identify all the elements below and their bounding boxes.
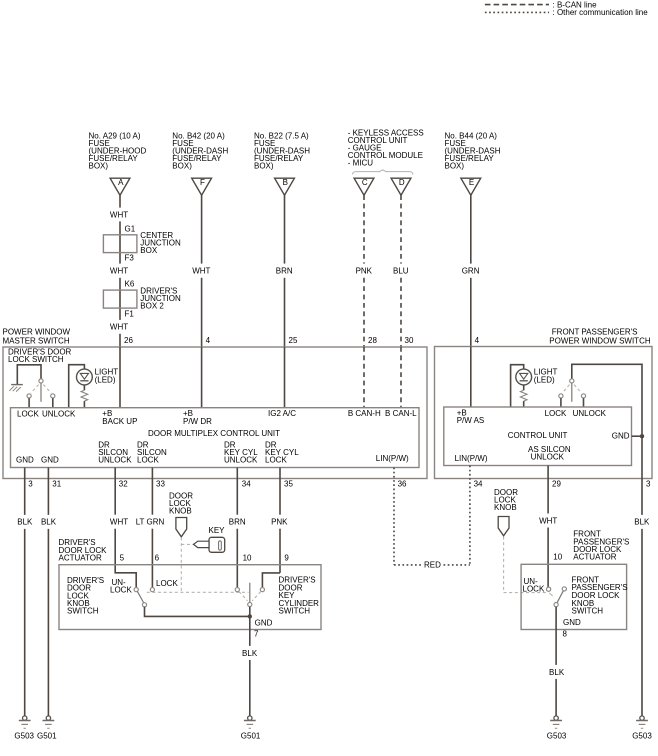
LED light (master) <box>77 369 93 390</box>
LED light (passenger) <box>516 369 532 390</box>
driver's knob switch arm <box>137 591 143 603</box>
svg-text:DOOR MULTIPLEX CONTROL UNIT: DOOR MULTIPLEX CONTROL UNIT <box>148 429 280 438</box>
wire pin4 to +B P/W DR <box>201 347 203 408</box>
wire pin34 DR KEY CYL UNLOCK (BRN) <box>236 468 238 515</box>
pin label +B P/W AS <box>457 409 485 426</box>
svg-text:8: 8 <box>563 630 568 639</box>
door lock knob label (passenger) <box>494 488 518 512</box>
svg-text:PNK: PNK <box>356 267 373 276</box>
svg-text:B CAN-H: B CAN-H <box>348 409 381 418</box>
pin label GND GND <box>16 455 59 464</box>
svg-text:GND: GND <box>612 431 630 440</box>
LIN(P/W) dotted wire pin34 passenger <box>469 466 471 565</box>
svg-text:9: 9 <box>284 553 289 562</box>
knob linkage dashed (passenger) <box>503 537 505 593</box>
key linkage dashed <box>181 543 193 545</box>
svg-text:BOX: BOX <box>140 246 158 255</box>
svg-text:34: 34 <box>474 479 483 488</box>
svg-text:LT GRN: LT GRN <box>136 518 165 527</box>
wire pin4 to +B P/W AS <box>470 347 472 408</box>
mechanical linkage dashed (knob to key cylinder) <box>147 591 249 593</box>
svg-text:BOX): BOX) <box>445 161 465 170</box>
knob linkage dashed (driver) <box>180 538 182 593</box>
svg-text:P/W DR: P/W DR <box>183 417 212 426</box>
svg-text:LIN(P/W): LIN(P/W) <box>455 454 488 463</box>
wire pin33 DR SILCON LOCK (LT GRN) <box>151 468 153 515</box>
wire pin29 AS SILCON UNLOCK (WHT) <box>547 466 549 514</box>
LIGHT (LED) label (passenger) <box>534 368 558 385</box>
svg-text:D: D <box>399 178 405 187</box>
svg-text:G501: G501 <box>241 732 261 741</box>
ground G503 (passenger pin3) <box>632 716 652 741</box>
svg-text:FRONT PASSENGER'S: FRONT PASSENGER'S <box>552 327 638 336</box>
resistor below LED (passenger) <box>520 390 527 401</box>
svg-text:WHT: WHT <box>192 267 210 276</box>
wire fuse B42 to pin 4 (WHT) <box>201 195 203 263</box>
svg-text:3: 3 <box>28 479 33 488</box>
svg-text:G501: G501 <box>37 732 57 741</box>
svg-text:KNOB: KNOB <box>494 503 517 512</box>
svg-text:RED: RED <box>424 561 441 570</box>
svg-text:C: C <box>362 178 368 187</box>
svg-text:30: 30 <box>405 336 414 345</box>
connector triangle C <box>354 178 374 195</box>
svg-text:BACK UP: BACK UP <box>102 417 137 426</box>
svg-text:4: 4 <box>475 336 480 345</box>
driver's key cylinder pivot <box>248 602 252 606</box>
svg-text:LOCK: LOCK <box>156 579 178 588</box>
svg-text:10: 10 <box>553 552 562 561</box>
driver's key cylinder unlock contact <box>235 588 239 592</box>
pin label +B P/W DR <box>183 409 212 426</box>
svg-text:E: E <box>469 178 474 187</box>
svg-text:WHT: WHT <box>110 267 128 276</box>
driver's junction box 2 <box>103 287 181 311</box>
driver's door lock knob switch label <box>67 576 104 615</box>
svg-text:WHT: WHT <box>539 516 557 525</box>
wire pin25 to IG2 A/C <box>284 347 286 408</box>
driver's key cylinder lock contact <box>260 588 264 592</box>
svg-text:LOCK: LOCK <box>137 455 159 464</box>
LED light U-bracket (master) <box>69 365 85 408</box>
wire passenger knob switch to G503 (BLK) <box>555 607 557 665</box>
pin label +B BACK UP <box>102 409 137 426</box>
passenger lock contact <box>559 394 563 407</box>
wire fuse B44 to pin 4 (GRN) <box>470 195 472 263</box>
LED light U-bracket (passenger) <box>511 365 524 407</box>
svg-text:LOCK: LOCK <box>523 584 545 593</box>
svg-text:25: 25 <box>289 336 298 345</box>
svg-text:KNOB: KNOB <box>169 506 192 515</box>
svg-text:BRN: BRN <box>229 518 246 527</box>
svg-text:UNLOCK: UNLOCK <box>531 453 565 462</box>
wire pin31 GND to G501 (BLK) <box>47 468 49 515</box>
wire pin28 to B CAN-H <box>363 347 365 408</box>
resistor below LED (master) <box>81 390 88 401</box>
svg-text:BLK: BLK <box>41 518 57 527</box>
driver's knob switch pivot <box>142 603 146 607</box>
svg-text:LOCK: LOCK <box>110 586 132 595</box>
svg-text:(LED): (LED) <box>534 375 555 384</box>
lock contact <box>27 394 31 408</box>
wire pin30 to B CAN-L <box>400 347 402 408</box>
pin label DR KEY CYL LOCK <box>265 440 299 464</box>
svg-text:: Other communication line: : Other communication line <box>553 8 649 17</box>
svg-text:LIN(P/W): LIN(P/W) <box>376 454 409 463</box>
svg-text:29: 29 <box>552 479 561 488</box>
connector triangle F <box>192 178 212 195</box>
svg-text:3: 3 <box>646 479 651 488</box>
svg-text:UNLOCK: UNLOCK <box>224 455 258 464</box>
svg-text:ACTUATOR: ACTUATOR <box>573 553 616 562</box>
svg-text:B CAN-L: B CAN-L <box>385 409 417 418</box>
wire fuse A29 to pin 26 (WHT) <box>119 195 121 207</box>
driver's door key cylinder switch label <box>279 576 320 616</box>
wire key cylinder pivot to G501 (BLK) <box>249 607 251 646</box>
svg-text:F: F <box>200 178 205 187</box>
svg-text:28: 28 <box>368 336 377 345</box>
svg-text:BOX): BOX) <box>254 161 274 170</box>
fuse B42 label <box>172 131 228 170</box>
pin label AS SILCON UNLOCK <box>528 445 571 462</box>
center junction box <box>103 231 181 255</box>
svg-text:ACTUATOR: ACTUATOR <box>59 554 102 563</box>
control unit box (passenger) <box>444 407 632 466</box>
svg-text:6: 6 <box>155 553 160 562</box>
svg-text:BOX): BOX) <box>172 161 192 170</box>
passenger knob switch unlock contact <box>547 587 551 591</box>
LIGHT (LED) label (master) <box>95 368 119 385</box>
svg-text:B: B <box>283 178 288 187</box>
svg-text:UNLOCK: UNLOCK <box>42 409 76 418</box>
svg-text:SWITCH: SWITCH <box>67 607 99 616</box>
door multiplex control unit box <box>11 408 420 468</box>
front passenger's power window switch outer box <box>435 347 653 479</box>
pin label DR SILCON UNLOCK <box>98 440 132 464</box>
svg-text:BLK: BLK <box>17 518 33 527</box>
svg-text:10: 10 <box>243 554 252 563</box>
svg-text:GND: GND <box>41 455 59 464</box>
front passenger's door lock actuator label <box>573 530 629 562</box>
svg-text:G503: G503 <box>547 732 567 741</box>
UN-LOCK label (driver knob switch) <box>110 578 132 594</box>
svg-text:LOCK: LOCK <box>265 455 287 464</box>
B-CAN wire D to pin 30 (BLU) <box>400 195 402 263</box>
svg-text:SWITCH: SWITCH <box>572 607 604 616</box>
ground G501 (pin31) <box>37 716 57 741</box>
passenger knob switch open contact <box>562 587 566 591</box>
svg-text:BLK: BLK <box>549 668 565 677</box>
wire pin35 DR KEY CYL LOCK (PNK) <box>279 468 281 515</box>
svg-text:33: 33 <box>156 479 165 488</box>
svg-text:F1: F1 <box>125 310 135 319</box>
driver's knob switch unlock contact <box>134 588 138 592</box>
key symbol <box>194 526 226 553</box>
B-CAN wire C to pin 28 (PNK) <box>363 195 365 263</box>
door lock knob symbol (driver) <box>176 518 187 537</box>
svg-text:G1: G1 <box>125 225 136 234</box>
wire pin3 GND to G503 (BLK) <box>24 468 26 515</box>
keyless access / gauge / MICU label <box>348 128 424 167</box>
svg-text:26: 26 <box>124 336 133 345</box>
svg-text:BOX): BOX) <box>89 161 109 170</box>
svg-text:LOCK SWITCH: LOCK SWITCH <box>8 355 64 364</box>
svg-text:GND: GND <box>563 618 581 627</box>
svg-text:UNLOCK: UNLOCK <box>98 455 132 464</box>
svg-text:SWITCH: SWITCH <box>279 607 311 616</box>
svg-text:P/W AS: P/W AS <box>457 416 485 425</box>
svg-text:GRN: GRN <box>462 267 480 276</box>
svg-text:32: 32 <box>119 479 128 488</box>
LIN(P/W) dotted wire RED horizontal <box>394 564 422 566</box>
svg-text:GND: GND <box>16 455 34 464</box>
svg-text:BLK: BLK <box>242 649 258 658</box>
wire pin26 to +B BACK UP <box>119 347 121 408</box>
svg-text:31: 31 <box>52 479 61 488</box>
svg-text:4: 4 <box>206 336 211 345</box>
ground G503 (pin3) <box>14 716 34 741</box>
driver's door lock switch pivot contact <box>31 379 51 402</box>
ground G503 (pin8) <box>547 716 567 741</box>
legend B-CAN dashed line <box>485 4 549 6</box>
svg-text:35: 35 <box>284 479 293 488</box>
svg-text:POWER WINDOW SWITCH: POWER WINDOW SWITCH <box>549 336 651 345</box>
junction dot GND (driver actuator) <box>248 614 252 618</box>
svg-text:WHT: WHT <box>110 210 128 219</box>
UN-LOCK label (passenger knob switch) <box>523 577 545 594</box>
power window master switch outer box <box>3 347 427 479</box>
svg-text:PNK: PNK <box>271 518 288 527</box>
svg-text:BRN: BRN <box>276 267 293 276</box>
driver's key cylinder arm <box>249 583 251 603</box>
svg-text:KEY: KEY <box>209 526 226 535</box>
svg-text:- MICU: - MICU <box>348 158 374 167</box>
ground G501 (pin7) <box>241 716 261 741</box>
svg-text:G503: G503 <box>632 732 652 741</box>
svg-text:LOCK: LOCK <box>545 409 567 418</box>
svg-text:BOX 2: BOX 2 <box>140 302 164 311</box>
pin label DR SILCON LOCK <box>137 440 167 464</box>
svg-text:34: 34 <box>242 479 251 488</box>
svg-text:IG2 A/C: IG2 A/C <box>268 409 296 418</box>
door lock knob label (driver) <box>169 491 193 515</box>
passenger switch pivot contact <box>562 379 581 402</box>
driver's door lock actuator label <box>59 538 108 563</box>
brace over connectors C and D <box>352 170 413 175</box>
LIN(P/W) dotted wire pin36 <box>393 468 395 565</box>
passenger knob switch pivot <box>554 603 558 607</box>
svg-text:G503: G503 <box>14 732 34 741</box>
chassis ground (lock switch common) <box>9 365 41 392</box>
wire fuse B22 to pin 25 (BRN) <box>284 195 286 263</box>
fuse B44 label <box>445 131 501 170</box>
fuse B22 label <box>254 131 310 170</box>
driver's door lock switch label <box>8 348 72 365</box>
driver's knob switch lock contact <box>150 588 154 592</box>
svg-text:5: 5 <box>120 553 125 562</box>
svg-text:LOCK: LOCK <box>17 409 39 418</box>
wire passenger GND pin3 to G503 (BLK) <box>641 436 643 515</box>
unlock contact <box>51 394 55 408</box>
svg-text:WHT: WHT <box>110 323 128 332</box>
front passenger's door lock actuator box <box>521 564 627 629</box>
svg-text:A: A <box>118 178 124 187</box>
svg-text:F3: F3 <box>125 253 135 262</box>
svg-text:BLK: BLK <box>634 518 650 527</box>
passenger lock/unlock switch common wire to GND junction <box>572 364 642 434</box>
passenger knob switch arm <box>557 591 563 603</box>
passenger unlock contact <box>581 394 585 407</box>
svg-text:K6: K6 <box>125 279 135 288</box>
svg-text:GND: GND <box>255 618 273 627</box>
svg-text:(LED): (LED) <box>95 375 116 384</box>
svg-text:POWER WINDOW: POWER WINDOW <box>3 327 71 336</box>
legend other-communication dotted line <box>485 11 549 13</box>
wire knob switch common to GND junction <box>145 607 250 617</box>
svg-text:7: 7 <box>254 629 259 638</box>
svg-text:MASTER SWITCH: MASTER SWITCH <box>3 336 70 345</box>
front passenger's door lock knob switch label <box>572 575 628 615</box>
connector triangle A <box>110 178 130 195</box>
connector triangle E <box>461 178 481 195</box>
connector triangle D <box>391 178 411 195</box>
connector triangle B <box>275 178 295 195</box>
driver's door lock actuator box <box>59 565 321 630</box>
wire pin32 DR SILCON UNLOCK (WHT) <box>114 468 116 515</box>
pin label DR KEY CYL UNLOCK <box>224 440 258 464</box>
GND tick and junction (passenger) <box>612 431 644 440</box>
door lock knob symbol (passenger) <box>498 517 509 536</box>
svg-text:WHT: WHT <box>110 518 128 527</box>
svg-text:BLU: BLU <box>393 267 409 276</box>
svg-text:CONTROL UNIT: CONTROL UNIT <box>508 431 568 440</box>
svg-text:UNLOCK: UNLOCK <box>573 409 607 418</box>
fuse A29 label <box>89 131 147 170</box>
svg-text:36: 36 <box>398 479 407 488</box>
